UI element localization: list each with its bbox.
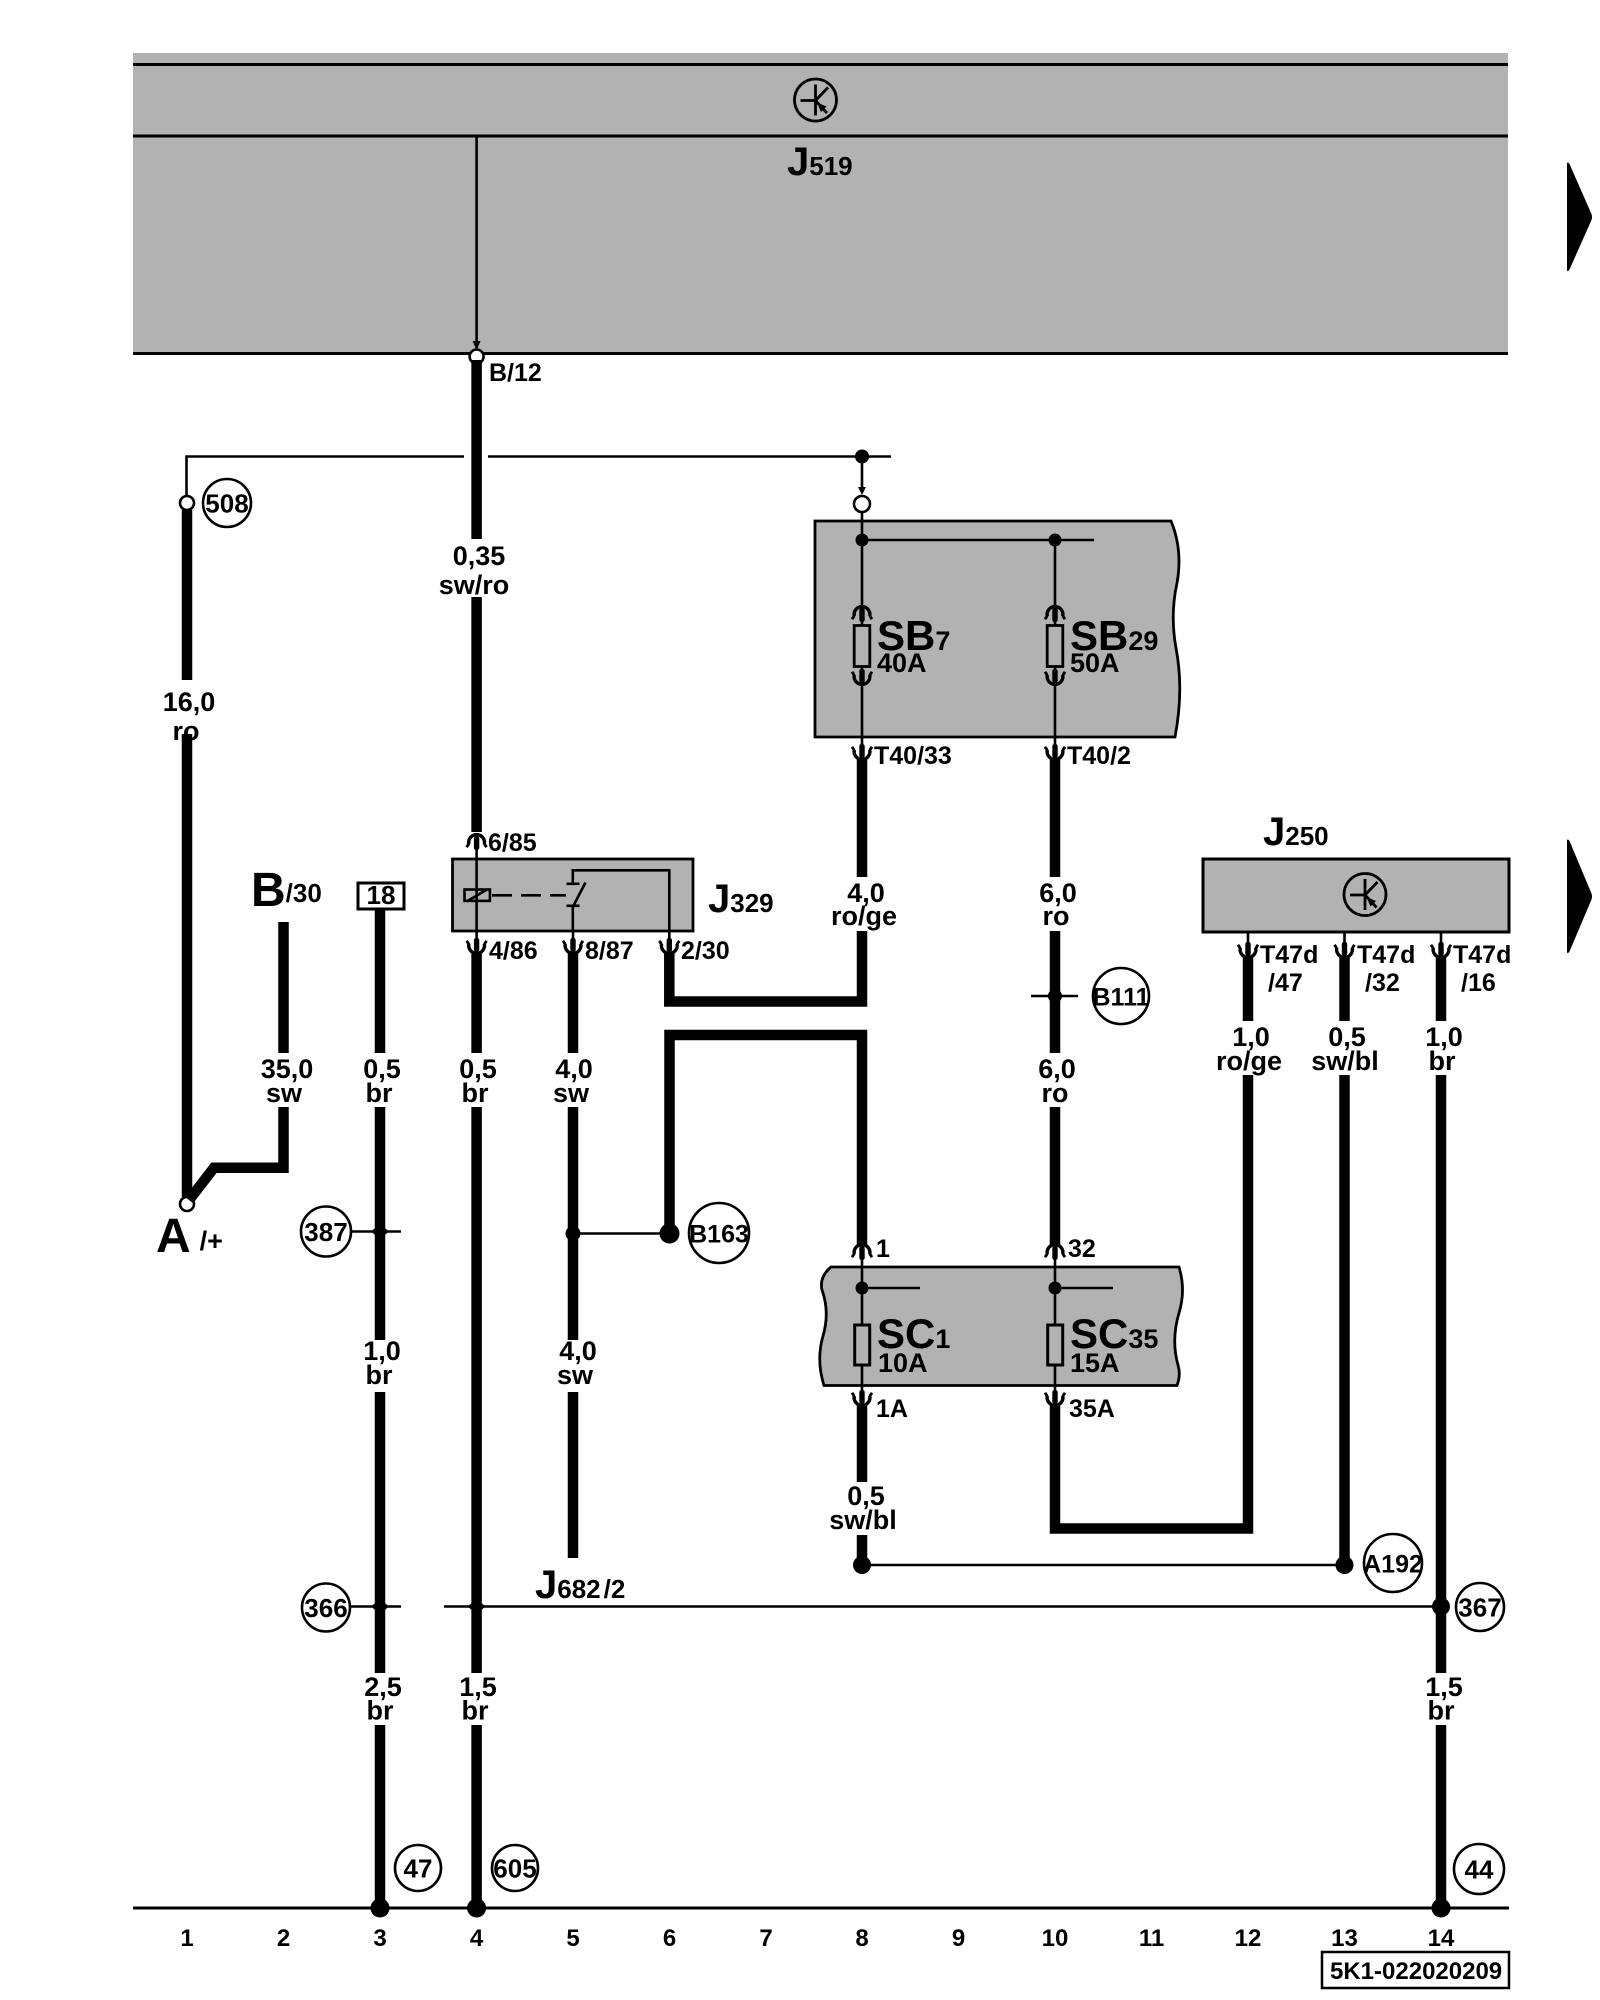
- svg-text:10A: 10A: [878, 1348, 928, 1378]
- circle 367: [1456, 1583, 1504, 1631]
- pin T47d/16 stub: [1440, 932, 1443, 945]
- svg-text:13: 13: [1331, 1925, 1358, 1952]
- svg-text:ro/ge: ro/ge: [831, 901, 897, 931]
- pin 1 connector SC1: [852, 1245, 872, 1260]
- relay coil box: [465, 890, 490, 901]
- terminal box 18: [358, 883, 404, 909]
- svg-text:T40/33: T40/33: [874, 742, 952, 770]
- wire col3 lower (through 366): [375, 1392, 386, 1673]
- svg-text:8/87: 8/87: [585, 937, 634, 965]
- circle 605: [492, 1845, 538, 1891]
- wire col14 bottom to ground bus: [1436, 1725, 1447, 1906]
- circle 47: [395, 1845, 441, 1891]
- svg-text:0,35: 0,35: [453, 541, 506, 571]
- svg-text:6: 6: [663, 1925, 676, 1952]
- svg-text:T47d: T47d: [1453, 941, 1511, 969]
- wire col10 6,0 ro upper: [1050, 759, 1061, 877]
- svg-text:/32: /32: [1365, 969, 1400, 997]
- svg-text:1A: 1A: [876, 1395, 908, 1423]
- svg-text:ro: ro: [1042, 1078, 1069, 1108]
- node line 366: [350, 1605, 401, 1608]
- pin 35A connector: [1045, 1390, 1065, 1405]
- wire col13 down to A192 line: [1339, 1075, 1350, 1560]
- SB internal bus line: [862, 539, 1094, 542]
- wire col5 mid segment: [568, 1107, 579, 1340]
- wire col2 35,0 sw upper: [278, 922, 289, 1053]
- svg-text:2/30: 2/30: [681, 937, 730, 965]
- wire col8 0,5 sw/bl upper: [857, 1405, 868, 1482]
- SC1 lower wire: [861, 1365, 864, 1392]
- svg-text:50A: 50A: [1070, 648, 1120, 678]
- svg-text:br: br: [1429, 1046, 1456, 1076]
- junction dot at col8: [855, 450, 869, 464]
- terminal B/12 socket circle: [470, 350, 484, 364]
- svg-text:44: 44: [1465, 1855, 1494, 1885]
- wire col4 bottom to ground bus: [471, 1725, 482, 1906]
- wire col6 B163 up-right to SC1: [670, 1035, 863, 1246]
- svg-text:T40/2: T40/2: [1067, 742, 1131, 770]
- SB29 fuse top clip: [1045, 607, 1065, 622]
- svg-text:4: 4: [470, 1925, 484, 1952]
- fuse SB29 body: [1047, 626, 1063, 667]
- svg-text:B/12: B/12: [489, 359, 542, 387]
- relay switch bottom contact tick: [567, 904, 580, 907]
- SC35 lower wire: [1054, 1365, 1057, 1392]
- svg-text:T47d: T47d: [1260, 941, 1318, 969]
- wire col10 to SC35 pin 32: [1050, 1107, 1061, 1246]
- pin 6/85 connector: [467, 835, 487, 850]
- junction dot col14/367: [1432, 1598, 1450, 1616]
- SC35 node dot: [1049, 1282, 1062, 1295]
- pin 4/86 stub: [475, 931, 478, 940]
- wire col4 0,5 br upper: [471, 953, 482, 1053]
- wire col6 2/30 down-right to col8: [669, 931, 862, 1002]
- fuse SB7 body: [854, 626, 870, 667]
- relay switch top contact tick: [567, 882, 580, 885]
- wire col12 upper stub: [1243, 957, 1254, 1021]
- K symbol in J250: [1344, 874, 1386, 916]
- svg-text:1: 1: [180, 1925, 193, 1952]
- node line 508 right part: [488, 455, 891, 458]
- pin 2/30 stub: [668, 931, 671, 940]
- pin T40/2 connector: [1054, 737, 1057, 746]
- circle 366: [302, 1584, 350, 1632]
- node line B111: [1031, 995, 1078, 998]
- wire col5 lower segment J682/2: [568, 1392, 579, 1558]
- pin T47d/47 stub: [1247, 932, 1250, 945]
- terminal B/12 arrowhead: [473, 341, 481, 350]
- fuse box SB body: [815, 521, 1180, 737]
- wire col3 bottom to ground bus: [375, 1725, 386, 1906]
- wire col13 end dot: [1336, 1556, 1354, 1574]
- svg-text:387: 387: [304, 1217, 347, 1247]
- junction diamond col3/387: [371, 1224, 389, 1239]
- pin 1A connector: [852, 1390, 872, 1405]
- circle 387: [301, 1207, 351, 1257]
- terminal A socket circle: [180, 1197, 194, 1211]
- wire col10 35A to col12 up: [1055, 1075, 1248, 1529]
- svg-text:605: 605: [493, 1854, 536, 1884]
- svg-text:sw: sw: [557, 1360, 594, 1390]
- SB7 fuse top clip: [852, 607, 872, 622]
- svg-text:sw/ro: sw/ro: [439, 570, 510, 600]
- internal wire of J519 to terminal B/12: [475, 137, 478, 348]
- wire col1 16,0 ro lower: [182, 734, 193, 1197]
- svg-text:br: br: [367, 1696, 394, 1726]
- circle B163: [689, 1203, 749, 1263]
- J519 inner separator line: [133, 135, 1508, 138]
- circle 44: [1454, 1844, 1504, 1894]
- relay dashed actuation line: [492, 894, 566, 897]
- node line to terminal 508: [187, 457, 465, 498]
- pin T47d/32 connector: [1335, 942, 1355, 957]
- svg-text:sw: sw: [266, 1078, 303, 1108]
- wire col5 4,0 sw upper: [568, 953, 579, 1053]
- fuse SC35 body: [1048, 1325, 1063, 1365]
- SB bus dot col10: [1049, 534, 1062, 547]
- SC1 internal node line: [862, 1287, 920, 1290]
- node line 366-367: [444, 1605, 1441, 1608]
- svg-text:1: 1: [876, 1235, 890, 1263]
- svg-text:11: 11: [1139, 1925, 1164, 1952]
- svg-text:A192: A192: [1363, 1551, 1423, 1579]
- wire col14 long segment: [1436, 1075, 1447, 1673]
- svg-text:sw/bl: sw/bl: [829, 1505, 897, 1535]
- pin 4/86 connector: [467, 938, 487, 953]
- svg-text:16,0: 16,0: [163, 687, 216, 717]
- relay internal wire switch to 8/87: [571, 906, 574, 931]
- svg-text:4/86: 4/86: [489, 937, 538, 965]
- svg-text:10: 10: [1042, 1925, 1069, 1952]
- node line A192: [862, 1564, 1345, 1567]
- svg-text:br: br: [462, 1078, 489, 1108]
- wire col2 35,0 sw lower with corner to terminal A: [189, 1107, 284, 1200]
- terminal 508 socket circle: [180, 496, 194, 510]
- B163 wire end dot: [660, 1224, 680, 1244]
- svg-text:366: 366: [304, 1593, 347, 1623]
- circle B111: [1093, 968, 1149, 1024]
- control unit J519 onboard supply (gray body): [133, 53, 1508, 354]
- wire col4 B/12 down (0,35 sw/ro upper part): [471, 360, 482, 539]
- svg-text:14: 14: [1428, 1925, 1455, 1952]
- circle 508: [203, 479, 251, 527]
- pin 8/87 connector: [563, 938, 583, 953]
- J519 bottom border line: [133, 352, 1508, 355]
- fuse box SC body: [820, 1267, 1183, 1386]
- svg-text:367: 367: [1458, 1593, 1501, 1623]
- svg-text:32: 32: [1068, 1235, 1096, 1263]
- wire col3 mid (through 387): [375, 1107, 386, 1340]
- junction dot A192 left: [853, 1556, 871, 1574]
- ground bus dot col4: [467, 1899, 486, 1918]
- svg-text:sw/bl: sw/bl: [1311, 1046, 1379, 1076]
- svg-text:15A: 15A: [1070, 1348, 1120, 1378]
- relay coil wire vertical: [475, 859, 478, 931]
- svg-text:8: 8: [855, 1925, 868, 1952]
- fuse SC1 body: [855, 1325, 870, 1365]
- terminal socket into fuse box SB: [858, 487, 866, 495]
- relay internal wire from switch to 2/30: [573, 870, 670, 931]
- K symbol in J519: [795, 79, 837, 121]
- relay coil diagonal: [468, 890, 488, 902]
- wire col10 mid (through B111): [1050, 931, 1061, 1053]
- pin 32 connector SC35: [1045, 1245, 1065, 1260]
- SC1 stub line inside: [861, 1267, 864, 1325]
- svg-text:2: 2: [277, 1925, 290, 1952]
- svg-text:7: 7: [759, 1925, 772, 1952]
- svg-text:B111: B111: [1092, 984, 1149, 1012]
- wire col8 4,0 ro/ge upper: [857, 759, 868, 877]
- junction dot B111: [1048, 989, 1062, 1003]
- svg-text:B163: B163: [689, 1221, 749, 1249]
- svg-text:sw: sw: [553, 1078, 590, 1108]
- J519 top border line: [133, 63, 1508, 66]
- SB29 fuse bottom clip: [1045, 669, 1065, 684]
- svg-text:/47: /47: [1268, 969, 1303, 997]
- SC35 internal node line: [1055, 1287, 1113, 1290]
- svg-text:5K1-022020209: 5K1-022020209: [1330, 1958, 1502, 1985]
- relay J329 body: [453, 859, 694, 931]
- svg-text:47: 47: [404, 1854, 433, 1884]
- svg-text:br: br: [366, 1078, 393, 1108]
- svg-text:35A: 35A: [1069, 1395, 1115, 1423]
- svg-text:5: 5: [566, 1925, 579, 1952]
- node line 387: [351, 1230, 401, 1233]
- ground bus dot col3: [371, 1899, 390, 1918]
- SC35 stub line inside: [1054, 1267, 1057, 1325]
- SB bus dot col8: [856, 534, 869, 547]
- SB7 fuse bottom clip: [852, 669, 872, 684]
- svg-text:12: 12: [1235, 1925, 1262, 1952]
- ground bus line: [133, 1907, 1509, 1910]
- pin 8/87 stub: [572, 931, 575, 940]
- wire col8 0,5 sw/bl lower: [857, 1535, 868, 1565]
- SB7 fuse wire: [861, 512, 864, 737]
- direction arrow right middle: [1567, 839, 1592, 953]
- pin T47d/32 stub: [1343, 932, 1346, 945]
- svg-text:508: 508: [205, 489, 248, 519]
- wire col3 0,5 br upper: [375, 910, 386, 1053]
- pin 2/30 connector: [659, 938, 679, 953]
- svg-text:ro/ge: ro/ge: [1216, 1046, 1282, 1076]
- pin T40/33 connector: [861, 737, 864, 746]
- junction diamond col3/366: [371, 1599, 389, 1614]
- SB29 fuse wire: [1054, 540, 1057, 737]
- svg-text:br: br: [462, 1696, 489, 1726]
- svg-text:6/85: 6/85: [488, 829, 537, 857]
- SC1 node dot: [856, 1282, 869, 1295]
- svg-text:40A: 40A: [877, 648, 927, 678]
- svg-text:3: 3: [373, 1925, 386, 1952]
- junction dot col5/B163 line: [566, 1226, 581, 1241]
- wire col4 long middle segment: [471, 1107, 482, 1673]
- wire col14 upper stub: [1436, 957, 1447, 1021]
- relay/control unit J250 body: [1203, 859, 1509, 932]
- svg-text:9: 9: [952, 1925, 965, 1952]
- ground bus dot col14: [1432, 1899, 1451, 1918]
- pin T47d/47 connector: [1238, 942, 1258, 957]
- svg-text:/16: /16: [1461, 969, 1496, 997]
- direction arrow right top: [1567, 162, 1592, 271]
- junction diamond col4/366 line: [468, 1599, 486, 1614]
- svg-text:T47d: T47d: [1357, 941, 1415, 969]
- svg-text:br: br: [1428, 1696, 1455, 1726]
- svg-text:br: br: [366, 1360, 393, 1390]
- circle A192: [1364, 1534, 1422, 1592]
- svg-text:18: 18: [367, 880, 396, 910]
- relay switch blade: [573, 883, 586, 908]
- wire col4 0,35 sw/ro lower part: [471, 597, 482, 832]
- diagram number box: [1322, 1952, 1509, 1988]
- wire col1 16,0 ro upper: [182, 510, 193, 680]
- wire col13 upper stub: [1339, 957, 1350, 1021]
- svg-text:ro: ro: [1043, 901, 1070, 931]
- node line to B163: [573, 1232, 670, 1235]
- pin T47d/16 connector: [1431, 942, 1451, 957]
